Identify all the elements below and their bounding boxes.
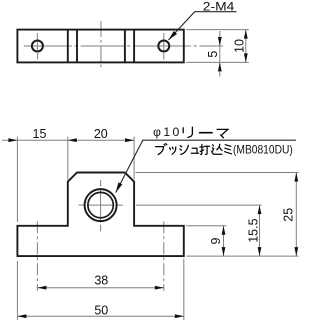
svg-text:38: 38 <box>94 274 108 288</box>
svg-text:25: 25 <box>281 208 295 222</box>
svg-text:15: 15 <box>33 127 47 141</box>
svg-text:5: 5 <box>206 51 220 58</box>
svg-text:2-M4: 2-M4 <box>203 1 235 13</box>
svg-text:50: 50 <box>94 303 108 317</box>
svg-text:20: 20 <box>94 127 108 141</box>
svg-text:φ10: φ10 <box>153 125 180 139</box>
svg-text:(MB0810DU): (MB0810DU) <box>233 143 293 157</box>
svg-text:9: 9 <box>209 237 223 244</box>
svg-text:15.5: 15.5 <box>246 218 260 242</box>
svg-text:10: 10 <box>233 39 247 53</box>
